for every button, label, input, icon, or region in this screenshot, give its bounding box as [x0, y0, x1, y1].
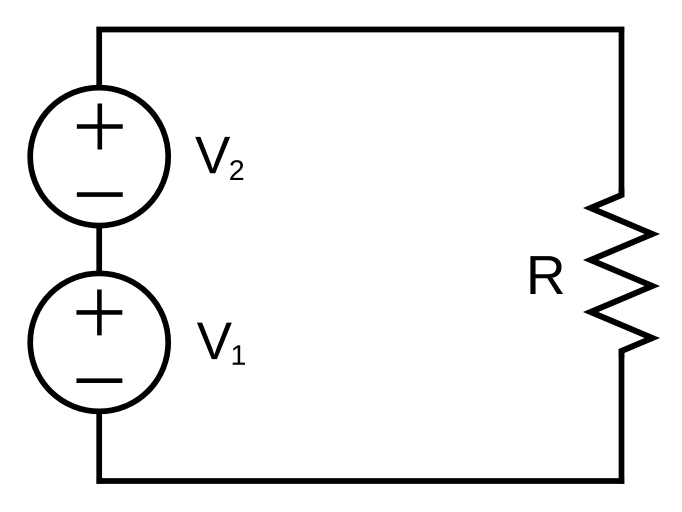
V1 source circle [30, 273, 168, 411]
wire left rail upper: V2 + terminal to top rail [96, 27, 102, 88]
label R [530, 256, 563, 294]
label V2: letter V [195, 137, 230, 173]
wire between sources: V2 - terminal to V1 + terminal [96, 226, 102, 274]
wire right rail upper: top rail to resistor R top [619, 27, 625, 191]
wire top rail [96, 27, 624, 33]
V2 minus polarity mark [77, 192, 123, 197]
voltage source V2 [30, 88, 168, 226]
V1 plus polarity mark [76, 289, 122, 335]
wire bottom rail [96, 478, 624, 484]
label V1: letter V [197, 323, 232, 359]
V1 minus polarity mark [76, 378, 122, 383]
voltage source V1 [30, 273, 168, 411]
label V1: subscript 1 [233, 345, 245, 365]
V2 plus polarity mark [77, 104, 123, 150]
label V2: subscript 2 [230, 160, 243, 180]
resistor R [591, 188, 653, 358]
wire left rail lower: V1 - terminal to bottom rail [96, 411, 102, 484]
wire right rail lower: resistor R bottom to bottom rail [619, 355, 625, 484]
V2 source circle [30, 88, 168, 226]
